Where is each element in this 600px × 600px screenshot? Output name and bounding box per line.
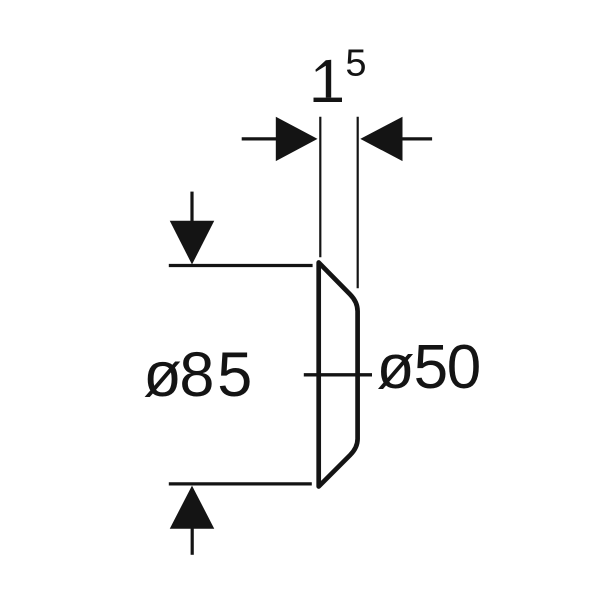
dimension label digit 1 (thickness value) xyxy=(315,60,331,98)
center line through profile xyxy=(304,373,372,376)
svg-text:ø: ø xyxy=(377,333,415,402)
svg-text:8: 8 xyxy=(179,340,214,410)
svg-text:5: 5 xyxy=(345,43,366,85)
upper ø85 dimension line xyxy=(169,264,313,267)
left dimension arrow tail xyxy=(242,137,278,140)
right dimension arrow tail xyxy=(403,137,433,140)
svg-text:ø: ø xyxy=(143,340,181,410)
svg-text:0: 0 xyxy=(447,333,481,402)
upper arrowhead pointing down xyxy=(170,221,215,265)
right arrowhead pointing left xyxy=(360,117,402,161)
svg-text:5: 5 xyxy=(217,340,252,410)
left arrowhead pointing right xyxy=(276,117,318,161)
right extension line xyxy=(357,117,359,289)
left extension line xyxy=(319,117,321,258)
svg-text:5: 5 xyxy=(414,333,448,402)
lower ø85 dimension line xyxy=(169,482,312,485)
upper arrow tail xyxy=(190,192,193,223)
lower arrowhead pointing up xyxy=(170,486,215,529)
cover plate profile (cross-section outline) xyxy=(319,263,358,487)
base bar of digit 1 xyxy=(314,98,343,102)
lower arrow tail xyxy=(191,528,194,555)
